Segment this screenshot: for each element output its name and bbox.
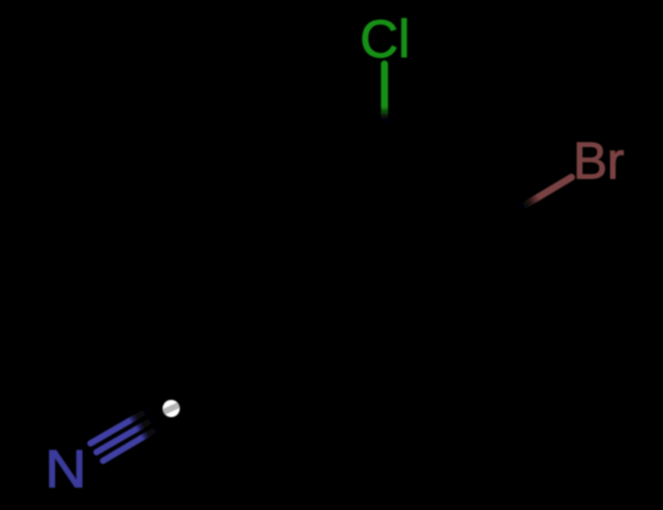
svg-text:Cl: Cl (360, 10, 410, 69)
svg-text:Br: Br (573, 132, 624, 190)
svg-text:N: N (45, 440, 87, 499)
